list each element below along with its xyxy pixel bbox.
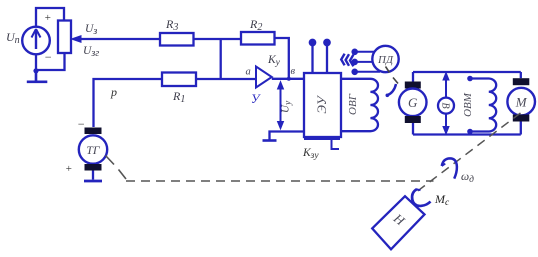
svg-text:a: a	[246, 67, 251, 78]
wire loop top	[413, 71, 521, 73]
op-amp U (amplifier У)	[256, 67, 272, 88]
shaft dashed horizontal	[126, 180, 434, 182]
network arrows (chevrons)	[341, 54, 353, 67]
svg-text:Uз: Uз	[85, 23, 97, 37]
voltage arrow Uу	[278, 82, 284, 130]
svg-text:ОВГ: ОВГ	[347, 93, 359, 115]
wire source top to potentiometer	[36, 8, 64, 27]
ЭУ power terminal 2	[324, 40, 329, 73]
shaft ПД-G (dashed)	[386, 67, 399, 84]
svg-text:−: −	[77, 117, 85, 131]
svg-text:Uзг: Uзг	[83, 45, 99, 59]
wire R1 to op-amp input	[196, 78, 256, 80]
svg-text:ОВМ: ОВМ	[462, 92, 474, 117]
supply line 2	[352, 60, 372, 65]
svg-text:ПД: ПД	[377, 54, 394, 66]
generator G	[399, 72, 427, 135]
ground (source)	[27, 71, 48, 82]
svg-text:+: +	[65, 163, 72, 175]
supply line 3	[352, 70, 380, 75]
node в (output junction)	[287, 77, 291, 81]
wire ЭУ lower-left to ground	[270, 132, 305, 140]
amplifier block ЭУ	[304, 73, 341, 137]
torque arrow Мс	[412, 189, 430, 206]
shaft M to load dashed	[413, 113, 521, 195]
wire source bottom loop	[36, 53, 65, 70]
svg-text:G: G	[408, 95, 418, 110]
wire summing drop	[220, 39, 222, 79]
motor M	[507, 72, 535, 135]
ЭУ bottom edge bar	[304, 138, 340, 140]
voltage source Uп	[22, 27, 50, 55]
svg-text:−: −	[44, 50, 52, 64]
svg-text:p: p	[110, 85, 117, 99]
generator excitation coil ОВГ	[341, 79, 378, 131]
prime mover ПД	[372, 46, 398, 72]
wire wiper to R3 with arrow	[72, 36, 161, 43]
svg-text:+: +	[44, 12, 51, 24]
wire R2 to output node	[275, 38, 289, 79]
wire lower rail TG to R1	[94, 79, 163, 127]
tachogenerator ТГ	[79, 128, 107, 182]
supply line 1	[352, 50, 374, 55]
resistor R2	[241, 32, 275, 45]
svg-text:в: в	[291, 66, 296, 77]
shaft ТГ dashed diagonal	[106, 156, 127, 180]
voltmeter В with arrows	[438, 73, 454, 135]
wire op-amp output to ЭУ	[272, 78, 304, 80]
svg-text:М: М	[515, 95, 528, 110]
ground (op-amp circuit)	[263, 139, 277, 142]
load Н (rotated box)	[372, 196, 424, 249]
resistor R3	[160, 33, 194, 46]
resistor R1	[162, 73, 196, 87]
rotation arrow on shaft	[387, 84, 396, 95]
rotation arrow ωд	[442, 158, 457, 178]
wire loop bottom	[413, 133, 521, 135]
wire R3 to R2	[194, 38, 242, 40]
svg-text:ТГ: ТГ	[86, 143, 101, 157]
motor excitation coil ОВМ	[467, 76, 496, 135]
potentiometer	[58, 21, 71, 54]
ЭУ power terminal 1	[310, 40, 315, 73]
node source bottom junction	[33, 68, 38, 73]
svg-text:ЭУ: ЭУ	[314, 94, 329, 114]
svg-text:В: В	[440, 103, 451, 109]
leader line Kзу	[332, 139, 340, 149]
